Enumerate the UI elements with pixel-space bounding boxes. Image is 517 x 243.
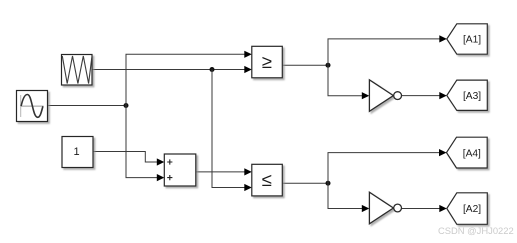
block: Goto A1 (447, 24, 488, 54)
arrowhead into GE in1 (244, 51, 252, 58)
block: Goto A2 (447, 193, 488, 225)
svg-text:[A4]: [A4] (463, 148, 481, 159)
wire: junction up to Goto A1 (328, 39, 440, 65)
wire: triangle-wave source to GE relational in2 (92, 69, 245, 71)
svg-text:[A3]: [A3] (463, 91, 481, 102)
arrowhead into LE in1 (244, 168, 252, 175)
wire: sine junction up to GE relational in1 (126, 54, 245, 105)
junction dot on sine wire (124, 103, 129, 108)
block: NOT gate U1 (369, 80, 401, 112)
arrowhead into Goto A3 (439, 92, 447, 99)
arrowhead into Goto A1 (439, 35, 447, 42)
block: triangle wave (Repeating Sequence) (62, 55, 93, 86)
junction dot on triangle-wave wire (210, 67, 215, 72)
wire: sine junction down to sum in2 (126, 106, 158, 178)
block: NOT gate U2 (369, 192, 401, 224)
arrowhead into NOT2 (362, 205, 370, 212)
block: Goto A3 (447, 80, 488, 110)
wire: junction up to Goto A4 (328, 153, 440, 184)
wire: NOT2 output to Goto A2 (402, 208, 441, 210)
svg-text:≤: ≤ (262, 169, 272, 190)
wire: GE relational out to top-right junction (283, 64, 329, 66)
arrowhead into LE in2 (244, 184, 252, 191)
arrowhead into GE in2 (244, 66, 252, 73)
block: sine wave source (17, 91, 48, 122)
wire: sum out to LE relational in1 (196, 171, 245, 173)
wire: junction down to NOT1 input (328, 65, 362, 96)
arrowhead into NOT1 (362, 92, 370, 99)
junction dot bottom-right (326, 181, 331, 186)
svg-text:1: 1 (74, 146, 80, 158)
arrowhead into sum in2 (157, 174, 165, 181)
wire: sine source to junction (48, 105, 127, 107)
block: relational operator LE (252, 164, 282, 196)
junction dot top-right (326, 63, 331, 68)
svg-text:CSDN @JHJ0222: CSDN @JHJ0222 (438, 225, 514, 236)
wire: NOT1 output to Goto A3 (402, 95, 441, 97)
arrowhead into Goto A4 (439, 149, 447, 156)
wire: LE relational out to bottom-right junction (283, 182, 329, 184)
svg-text:[A1]: [A1] (463, 35, 481, 46)
wire: junction down to LE relational in2 (212, 70, 245, 188)
arrowhead into sum in1 (157, 158, 165, 165)
svg-text:≥: ≥ (262, 51, 272, 72)
arrowhead into Goto A2 (439, 205, 447, 212)
wire: constant to sum in1 (93, 152, 158, 163)
block: Goto A4 (447, 137, 488, 168)
wire: junction down to NOT2 input (328, 183, 362, 208)
block: sum (add) (164, 154, 196, 186)
svg-text:[A2]: [A2] (463, 204, 481, 215)
block: constant 1 (62, 137, 93, 168)
block: relational operator GE (252, 46, 282, 78)
